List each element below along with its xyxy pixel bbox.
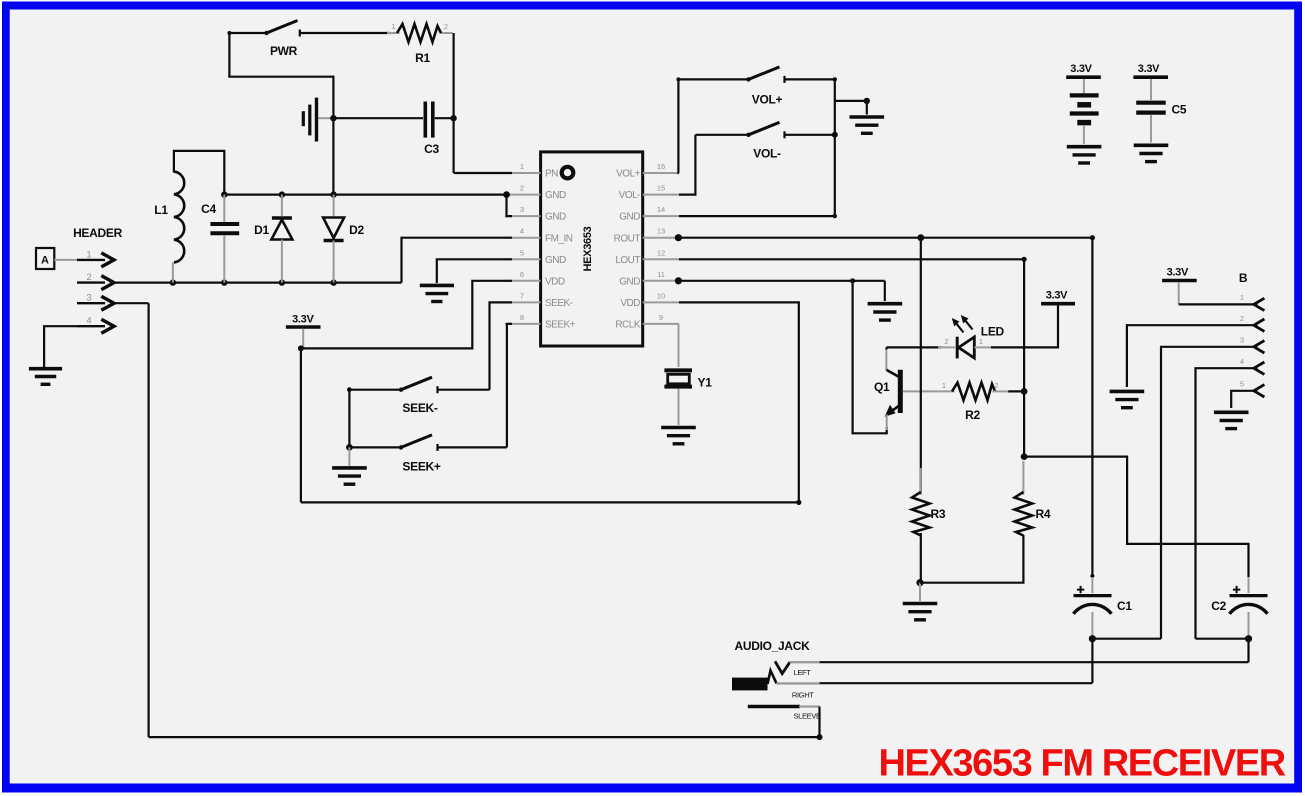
junction ROUT corner bbox=[1090, 235, 1095, 240]
svg-text:1: 1 bbox=[942, 381, 946, 390]
svg-text:B: B bbox=[1239, 271, 1248, 285]
junction VOL- / rail bbox=[832, 132, 838, 138]
junction sleeve / bottom rail bbox=[817, 734, 823, 740]
junction bus / C4 bbox=[221, 279, 227, 285]
wire 3.3V to B pin1 bbox=[1179, 303, 1258, 305]
wire GND pin11 long bbox=[679, 280, 885, 282]
svg-text:8: 8 bbox=[520, 313, 524, 322]
wire VOL rail to ground bbox=[835, 101, 867, 115]
svg-text:2: 2 bbox=[944, 337, 948, 346]
wire R1 right down to pin1 row bbox=[453, 33, 455, 173]
wire bus up to FM_IN bbox=[402, 238, 513, 283]
svg-text:D2: D2 bbox=[349, 223, 364, 237]
switch SEEK+ bbox=[349, 435, 507, 451]
wire A to header pin1 bbox=[54, 259, 80, 261]
ground at header pin4 bbox=[29, 369, 62, 385]
earth ground (left-pointing) at PWR rail bbox=[303, 98, 333, 142]
svg-text:1: 1 bbox=[520, 162, 524, 171]
wire LED row left bbox=[886, 346, 941, 348]
switch SEEK- bbox=[349, 377, 489, 393]
svg-text:4: 4 bbox=[520, 227, 524, 236]
capacitor C3 bbox=[333, 102, 453, 138]
wire R4 bottom to R3 ground bbox=[920, 535, 1023, 583]
diode D2 bbox=[323, 195, 344, 283]
svg-text:2: 2 bbox=[994, 381, 998, 390]
svg-text:LED: LED bbox=[981, 325, 1005, 339]
svg-text:C3: C3 bbox=[424, 142, 439, 156]
resistor R3 bbox=[912, 468, 930, 583]
svg-text:GND: GND bbox=[545, 212, 566, 223]
svg-text:7: 7 bbox=[520, 291, 524, 300]
wire C2 bottom to B pin4 bbox=[1196, 638, 1249, 640]
diode D1 bbox=[271, 195, 292, 283]
inductor L1 bbox=[173, 172, 184, 283]
wire L1 top to GND row bbox=[174, 151, 224, 195]
svg-text:VOL-: VOL- bbox=[753, 147, 781, 161]
wire vertical PWR rail to GND row bbox=[332, 76, 334, 195]
junction R3 bottom / ground bbox=[916, 579, 923, 586]
svg-text:Y1: Y1 bbox=[698, 376, 713, 390]
U1 right pin stubs 16-9 bbox=[643, 173, 679, 324]
wire B pin4 down bbox=[1196, 368, 1258, 639]
svg-text:3.3V: 3.3V bbox=[292, 314, 314, 326]
capacitor C5 bbox=[1136, 103, 1166, 143]
svg-text:5: 5 bbox=[520, 248, 524, 257]
svg-text:3: 3 bbox=[520, 205, 524, 214]
svg-text:SEEK+: SEEK+ bbox=[402, 460, 440, 474]
switch VOL+ bbox=[676, 67, 834, 83]
wire long vertical header pin3 down bbox=[148, 303, 150, 737]
svg-text:2: 2 bbox=[86, 272, 91, 283]
wire FM bus (header pin2 row) bbox=[114, 282, 402, 284]
junction C2 bottom bbox=[1245, 635, 1252, 642]
svg-text:SLEEVE: SLEEVE bbox=[794, 712, 821, 721]
connector B pin 2 arrow bbox=[1254, 319, 1265, 331]
wire R3 branch down bbox=[920, 238, 922, 493]
power 3.3V at B pin1 bbox=[1162, 267, 1197, 305]
junction SEEK ground node bbox=[346, 444, 353, 451]
wire B pin3 to C1 bottom bbox=[1161, 347, 1258, 639]
ground at B pin2 bbox=[1110, 391, 1145, 407]
svg-text:HEX3653: HEX3653 bbox=[582, 226, 594, 271]
capacitor C4 bbox=[210, 195, 239, 283]
wire C1 bottom to B pin3 bbox=[1092, 638, 1161, 640]
junction 3.3V branch bbox=[298, 345, 304, 351]
junction SEEK- left bbox=[347, 387, 352, 392]
svg-text:C1: C1 bbox=[1117, 599, 1132, 613]
wire PWR right to R1 bbox=[300, 32, 390, 34]
svg-text:14: 14 bbox=[657, 205, 665, 214]
junction GND / emitter branch bbox=[850, 278, 855, 283]
svg-text:4: 4 bbox=[86, 316, 91, 327]
svg-text:9: 9 bbox=[659, 313, 663, 322]
svg-text:GND: GND bbox=[545, 255, 566, 266]
battery/bypass cap (unlabeled) bbox=[1070, 95, 1099, 144]
wire bottom VDD rail bbox=[301, 501, 799, 503]
junction ROUT / R3 branch bbox=[917, 234, 924, 241]
U1 left pin numbers 1-8 bbox=[520, 162, 524, 322]
header pin numbers bbox=[86, 249, 91, 326]
audio jack sleeve contact bbox=[748, 705, 800, 709]
svg-text:VOL+: VOL+ bbox=[616, 169, 641, 180]
junction GND at pin11 bbox=[675, 277, 682, 284]
resistor R1 bbox=[387, 24, 453, 42]
connector B pin 3 arrow bbox=[1254, 341, 1265, 353]
diode LED bbox=[938, 315, 991, 358]
junction LOUT / R4 / C2 branch bbox=[1021, 453, 1028, 460]
power 3.3V at LED bbox=[1041, 290, 1075, 304]
wire SEEK+ to U1 pin8 bbox=[507, 324, 512, 448]
svg-text:3: 3 bbox=[86, 293, 91, 304]
svg-text:12: 12 bbox=[657, 248, 665, 257]
wire B pin5 to ground bbox=[1231, 391, 1257, 408]
junction GND row / D1 bbox=[279, 191, 285, 197]
junction C1 bottom bbox=[1089, 635, 1096, 642]
junction VOL+ rail corner bbox=[833, 77, 837, 81]
svg-text:LOUT: LOUT bbox=[615, 255, 640, 266]
junction GND row / C4 bbox=[221, 191, 227, 197]
wire SEEK- left terminal down bbox=[348, 390, 350, 448]
ground at SEEK switches bbox=[332, 447, 367, 484]
capacitor C2 (polarized) bbox=[1230, 577, 1268, 639]
svg-text:R4: R4 bbox=[1036, 507, 1051, 521]
wire PWR left down bbox=[228, 33, 230, 77]
junction VOL ground branch bbox=[864, 98, 870, 104]
IC U1 HEX3653 bbox=[541, 152, 643, 346]
header pin 3 arrow bbox=[77, 296, 114, 310]
R1 pin numbers bbox=[391, 22, 448, 31]
wire LOUT node to C2 bbox=[1024, 457, 1248, 577]
junction PWR rail / C3 left bbox=[330, 115, 336, 121]
svg-text:RCLK: RCLK bbox=[615, 320, 641, 331]
wire ROUT long bbox=[679, 237, 1092, 239]
U1 right pin numbers 16-9 bbox=[657, 162, 665, 322]
junction LOUT corner bbox=[1022, 257, 1027, 262]
ground at U1 pin5 bbox=[420, 285, 454, 301]
junction R2 / LOUT rail bbox=[1021, 388, 1028, 395]
junction bus / D1 bbox=[279, 279, 285, 285]
junction GND row / D2 bbox=[330, 191, 336, 197]
svg-text:1: 1 bbox=[86, 249, 91, 260]
svg-text:3.3V: 3.3V bbox=[1070, 63, 1092, 75]
U1 right pin names bbox=[614, 169, 641, 331]
svg-text:L1: L1 bbox=[154, 203, 168, 217]
svg-text:VOL+: VOL+ bbox=[752, 93, 783, 107]
ground at R3/R4 bbox=[903, 583, 938, 620]
junction GND row / pin2 bbox=[503, 191, 510, 198]
svg-text:R1: R1 bbox=[415, 51, 430, 65]
header pin 2 arrow bbox=[77, 276, 114, 290]
svg-text:AUDIO_JACK: AUDIO_JACK bbox=[735, 639, 811, 653]
wire sleeve to bottom rail bbox=[799, 707, 820, 738]
svg-text:2: 2 bbox=[1240, 314, 1244, 323]
wire VOL right rail down to pin14 bbox=[679, 79, 835, 216]
svg-text:GND: GND bbox=[619, 276, 640, 287]
svg-text:SEEK+: SEEK+ bbox=[545, 320, 576, 331]
ground at C5 bbox=[1134, 145, 1169, 161]
LED pin numbers bbox=[944, 337, 983, 346]
svg-text:PN: PN bbox=[545, 169, 558, 180]
U1 left pin names bbox=[545, 169, 576, 331]
wire LEFT channel bbox=[790, 661, 1249, 663]
wire header pin3 right bbox=[114, 302, 149, 304]
connector B pin 4 arrow bbox=[1254, 362, 1265, 374]
ground at Y1 bbox=[661, 428, 696, 444]
B pin numbers bbox=[1240, 293, 1244, 388]
svg-text:FM_IN: FM_IN bbox=[545, 233, 573, 244]
svg-text:LEFT: LEFT bbox=[794, 668, 812, 677]
svg-text:HEADER: HEADER bbox=[73, 226, 123, 240]
wire bottom rail to audio jack sleeve bbox=[149, 736, 820, 738]
connector A box bbox=[36, 248, 54, 269]
svg-text:4: 4 bbox=[1240, 357, 1244, 366]
wire header pin4 from ground bbox=[44, 326, 78, 367]
wire SEEK- to U1 pin7 bbox=[490, 302, 513, 389]
svg-text:VDD: VDD bbox=[620, 298, 640, 309]
svg-text:SEEK-: SEEK- bbox=[545, 298, 573, 309]
svg-text:HEX3653 FM RECEIVER: HEX3653 FM RECEIVER bbox=[879, 743, 1286, 785]
svg-text:SEEK-: SEEK- bbox=[402, 401, 437, 415]
ground at VOL switches bbox=[850, 117, 885, 133]
svg-text:5: 5 bbox=[1240, 379, 1244, 388]
junction VDD rail corner bbox=[796, 500, 801, 505]
wire C2 bottom down to LEFT wire bbox=[1247, 639, 1249, 663]
wire pin2 to pin3 tie bbox=[507, 195, 513, 217]
wire pin11 GND drop bbox=[884, 281, 886, 301]
svg-text:2: 2 bbox=[444, 22, 448, 31]
transistor Q1 bbox=[885, 349, 938, 430]
connector B pin 1 arrow bbox=[1254, 298, 1265, 310]
svg-text:R3: R3 bbox=[931, 507, 946, 521]
svg-text:15: 15 bbox=[657, 184, 665, 193]
svg-text:13: 13 bbox=[657, 227, 665, 236]
wire GND row (pin2) bbox=[224, 194, 506, 196]
power 3.3V at battery cap bbox=[1066, 63, 1101, 93]
wire VOL+ left to U1 pin16 bbox=[677, 79, 680, 173]
ground at B pin5 bbox=[1214, 412, 1249, 428]
wire 3.3V to U1 pin6 VDD bbox=[301, 281, 512, 349]
svg-text:GND: GND bbox=[545, 190, 566, 201]
header pin 4 arrow bbox=[77, 319, 114, 333]
connector B pin 5 arrow bbox=[1254, 385, 1265, 397]
svg-text:VDD: VDD bbox=[545, 276, 565, 287]
wire U1 pin5 GND drop bbox=[437, 259, 512, 283]
svg-text:3.3V: 3.3V bbox=[1046, 290, 1068, 302]
svg-text:3.3V: 3.3V bbox=[1138, 63, 1160, 75]
wire C1 bottom down to RIGHT wire bbox=[1091, 639, 1093, 683]
junction VOL rail / pin14 corner bbox=[833, 214, 837, 218]
svg-text:3: 3 bbox=[1240, 335, 1244, 344]
audio jack plug body bbox=[732, 661, 790, 690]
crystal Y1 bbox=[664, 324, 692, 425]
resistor R4 bbox=[1015, 461, 1033, 536]
junction bus / D2 bbox=[330, 279, 336, 285]
svg-text:RIGHT: RIGHT bbox=[792, 691, 814, 700]
svg-text:A: A bbox=[41, 255, 49, 267]
junction ROUT at pin13 bbox=[675, 234, 682, 241]
wire to U1 pin1 PN bbox=[454, 172, 512, 174]
svg-text:C5: C5 bbox=[1172, 103, 1187, 117]
power 3.3V at C5 bbox=[1133, 63, 1168, 100]
ground at battery cap bbox=[1067, 147, 1102, 163]
wire RIGHT channel bbox=[777, 682, 1093, 685]
power 3.3V rail (left) bbox=[286, 314, 321, 349]
switch VOL- bbox=[695, 122, 834, 138]
svg-text:1: 1 bbox=[391, 22, 395, 31]
svg-text:11: 11 bbox=[657, 270, 665, 279]
svg-text:VOL-: VOL- bbox=[619, 190, 641, 201]
wire LOUT long bbox=[679, 258, 1024, 260]
svg-text:PWR: PWR bbox=[270, 44, 298, 58]
wire LOUT down to R4 node bbox=[1023, 259, 1025, 456]
wire VOL- left to U1 pin15 bbox=[679, 135, 695, 195]
svg-text:16: 16 bbox=[657, 162, 665, 171]
header pin 1 arrow bbox=[77, 253, 114, 267]
wire ROUT down to C1 bbox=[1091, 238, 1093, 577]
svg-text:D1: D1 bbox=[254, 223, 269, 237]
svg-text:GND: GND bbox=[619, 212, 640, 223]
junction C3 right / R1 rail bbox=[450, 115, 456, 121]
wire LED to 3.3V bbox=[991, 305, 1058, 347]
wire 3.3V down left rail bbox=[300, 348, 302, 502]
svg-text:ROUT: ROUT bbox=[614, 233, 641, 244]
svg-text:1: 1 bbox=[1240, 293, 1244, 302]
junction bus / L1 bbox=[170, 279, 176, 285]
svg-text:C4: C4 bbox=[201, 202, 216, 216]
capacitor C1 (polarized) bbox=[1073, 574, 1111, 639]
wire B pin2 to ground bbox=[1127, 325, 1258, 387]
svg-text:R2: R2 bbox=[965, 408, 980, 422]
ground at U1 pin11 bbox=[868, 304, 903, 320]
wire VDD rail up to U1 pin10 bbox=[679, 302, 799, 502]
resistor R2 bbox=[938, 383, 1024, 401]
svg-text:Q1: Q1 bbox=[874, 380, 890, 394]
svg-text:2: 2 bbox=[520, 184, 524, 193]
svg-text:3.3V: 3.3V bbox=[1167, 267, 1189, 279]
wire PWR bottom horizontal bbox=[228, 76, 333, 78]
switch PWR bbox=[227, 21, 299, 37]
svg-text:6: 6 bbox=[520, 270, 524, 279]
wire emitter rail bbox=[853, 281, 887, 434]
svg-text:10: 10 bbox=[657, 291, 665, 300]
R2 pin numbers bbox=[942, 381, 999, 390]
svg-text:C2: C2 bbox=[1211, 599, 1226, 613]
wire Q1 collector to LED row bbox=[885, 347, 887, 349]
U1 left pin stubs 1-8 bbox=[505, 173, 541, 324]
